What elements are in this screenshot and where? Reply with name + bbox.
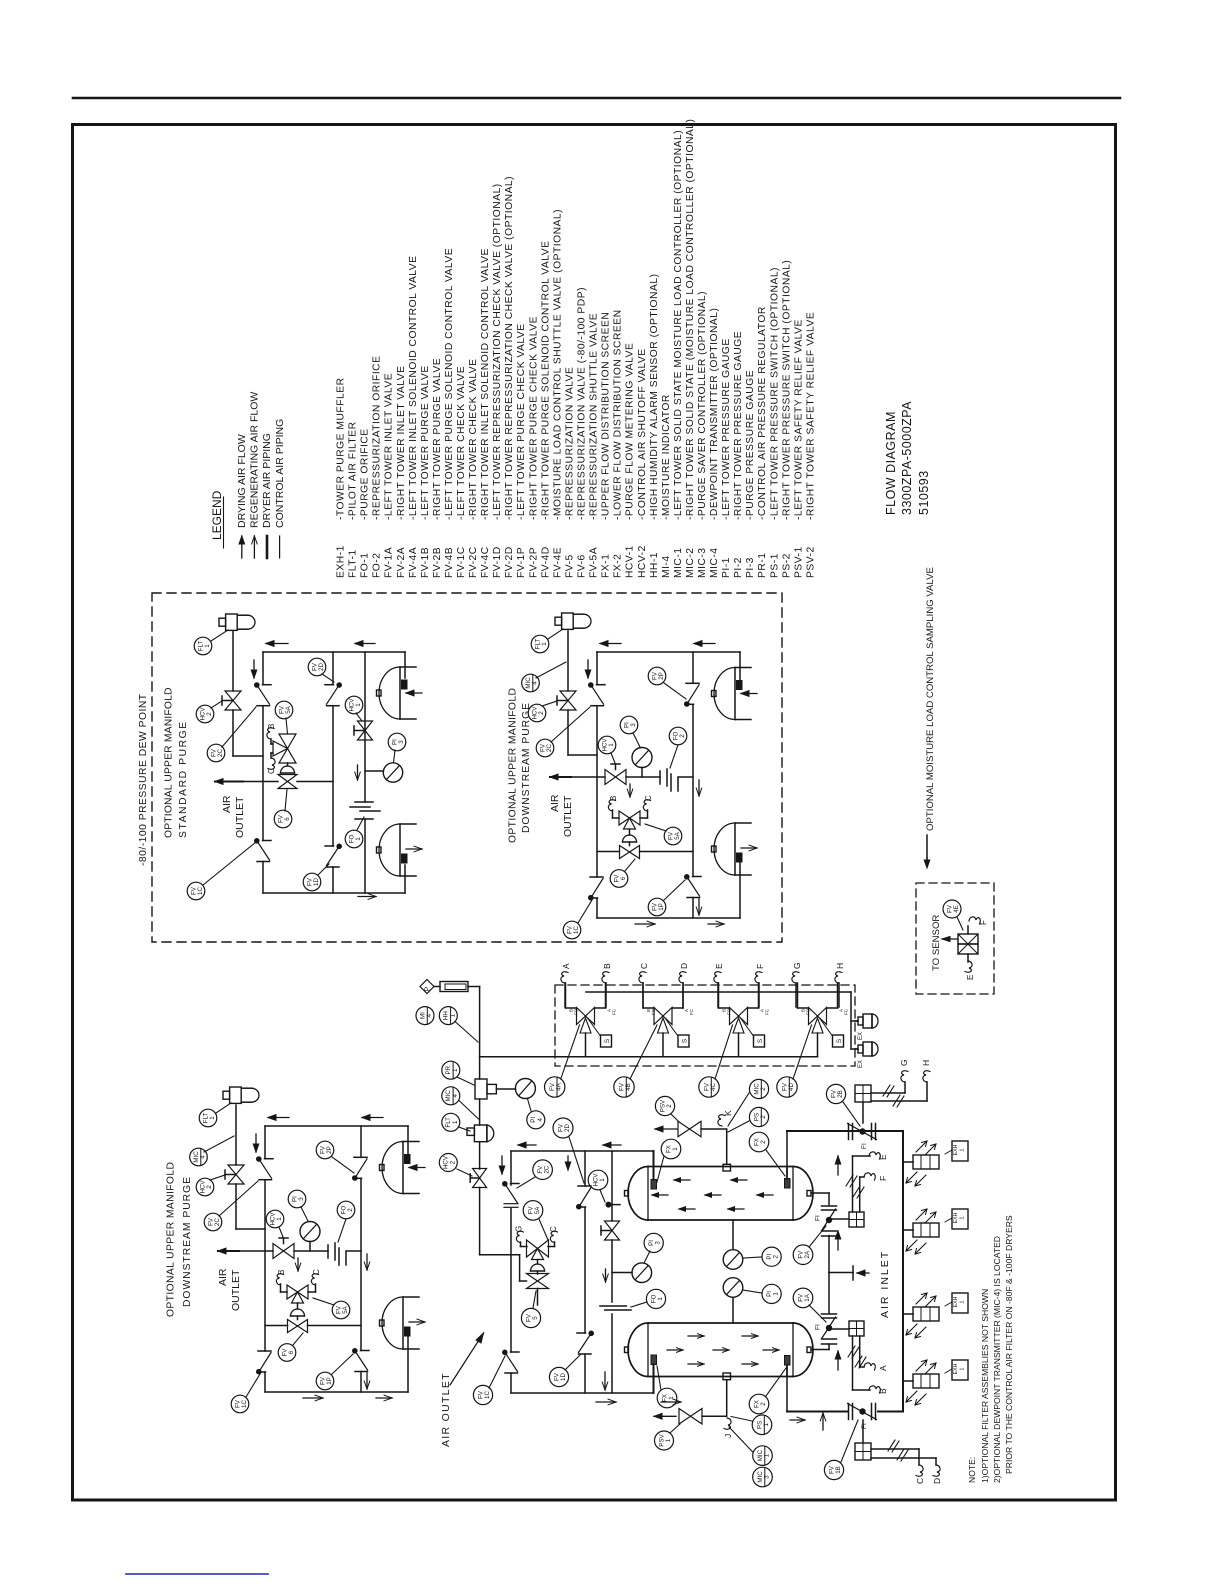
svg-text:-80/-100 PRESSURE DEW POINT: -80/-100 PRESSURE DEW POINT	[138, 693, 149, 866]
svg-text:-RIGHT TOWER INLET SOLENOID CO: -RIGHT TOWER INLET SOLENOID CONTROL VALV…	[480, 248, 491, 520]
svg-text:-CONTROL AIR PRESSURE REGULATO: -CONTROL AIR PRESSURE REGULATOR	[757, 306, 768, 520]
svg-text:1: 1	[452, 1120, 459, 1124]
svg-text:-REPRESSURIZATION SHUTTLE VALV: -REPRESSURIZATION SHUTTLE VALVE	[589, 313, 600, 520]
svg-text:2)OPTIONAL DEWPOINT TRANSMITTE: 2)OPTIONAL DEWPOINT TRANSMITTER (MIC-4) …	[992, 1236, 1002, 1483]
svg-text:E: E	[714, 963, 724, 969]
svg-text:6: 6	[620, 876, 627, 880]
svg-text:1P: 1P	[326, 1377, 333, 1385]
svg-text:FV-6: FV-6	[577, 554, 588, 578]
svg-text:1: 1	[668, 1396, 675, 1400]
svg-text:PI-2: PI-2	[733, 557, 744, 578]
svg-text:2: 2	[773, 1254, 780, 1258]
svg-text:EXH: EXH	[953, 1144, 959, 1155]
svg-text:FC: FC	[689, 1008, 694, 1015]
svg-text:1: 1	[665, 1438, 672, 1442]
svg-text:FI: FI	[861, 1143, 868, 1149]
svg-text:1: 1	[960, 1216, 966, 1219]
svg-text:FO: FO	[574, 1008, 579, 1015]
svg-text:STANDARD PURGE: STANDARD PURGE	[178, 720, 189, 838]
svg-text:2: 2	[760, 1402, 767, 1406]
svg-text:-RIGHT TOWER PURGE CHECK VALVE: -RIGHT TOWER PURGE CHECK VALVE	[528, 316, 539, 520]
svg-text:FV-4D: FV-4D	[540, 546, 551, 578]
svg-text:1: 1	[204, 644, 211, 648]
svg-text:FV-2A: FV-2A	[396, 547, 407, 578]
svg-text:1C: 1C	[241, 1400, 248, 1408]
svg-text:-LEFT TOWER REPRESSURIZATION C: -LEFT TOWER REPRESSURIZATION CHECK VALVE…	[492, 183, 503, 520]
svg-text:PS-1: PS-1	[769, 553, 780, 578]
svg-text:FX-1: FX-1	[601, 554, 612, 578]
svg-text:S: S	[757, 1038, 764, 1043]
svg-text:S: S	[836, 1038, 843, 1043]
svg-text:B: B	[878, 1388, 888, 1394]
svg-text:1: 1	[764, 1453, 771, 1457]
svg-text:FO-1: FO-1	[360, 553, 371, 578]
svg-text:-LEFT TOWER INLET VALVE: -LEFT TOWER INLET VALVE	[384, 373, 395, 520]
svg-text:-LOWER FLOW DISTRIBUTION SCREE: -LOWER FLOW DISTRIBUTION SCREEN	[613, 309, 624, 520]
svg-text:1)OPTIONAL FILTER ASSEMBLIES N: 1)OPTIONAL FILTER ASSEMBLIES NOT SHOWN	[980, 1289, 990, 1483]
svg-text:4B: 4B	[625, 1083, 632, 1091]
svg-text:2P: 2P	[658, 672, 665, 680]
svg-text:FV-1P: FV-1P	[516, 547, 527, 578]
svg-text:5A: 5A	[342, 1305, 349, 1313]
svg-text:1C: 1C	[197, 887, 204, 895]
svg-text:C: C	[915, 1478, 925, 1484]
svg-text:2: 2	[666, 1104, 673, 1108]
svg-text:-REPRESSURIZATION ORIFICE: -REPRESSURIZATION ORIFICE	[372, 356, 383, 520]
svg-text:HCV-1: HCV-1	[625, 545, 636, 578]
svg-text:EXH: EXH	[953, 1212, 959, 1223]
svg-text:-REPRESSURIZATION VALVE: -REPRESSURIZATION VALVE	[565, 367, 576, 520]
svg-text:-PURGE SAVER CONTROLLER (OPTI: -PURGE SAVER CONTROLLER (OPTIONAL)	[697, 291, 708, 520]
svg-text:-RIGHT TOWER PRESSURE SWITCH (: -RIGHT TOWER PRESSURE SWITCH (OPTIONAL)	[781, 260, 792, 520]
svg-text:2: 2	[760, 1140, 767, 1144]
svg-text:2P: 2P	[326, 1146, 333, 1154]
svg-text:-RIGHT TOWER PURGE SOLENOID CO: -RIGHT TOWER PURGE SOLENOID CONTROL VALV…	[540, 241, 551, 521]
svg-text:4A: 4A	[556, 1082, 563, 1090]
svg-text:4: 4	[537, 1118, 544, 1122]
svg-text:4E: 4E	[953, 905, 960, 913]
svg-text:1A: 1A	[804, 1293, 811, 1301]
svg-text:D: D	[932, 1478, 942, 1484]
svg-text:H: H	[921, 1060, 931, 1066]
svg-text:1: 1	[452, 1068, 459, 1072]
svg-text:FI: FI	[815, 1324, 822, 1330]
svg-text:-PURGE PRESSURE GAUGE: -PURGE PRESSURE GAUGE	[745, 370, 756, 520]
svg-text:FO: FO	[727, 1008, 732, 1015]
svg-text:-LEFT TOWER PURGE SOLENOID CON: -LEFT TOWER PURGE SOLENOID CONTROL VALVE	[444, 248, 455, 520]
svg-text:FLT-1: FLT-1	[348, 549, 359, 578]
svg-text:1: 1	[599, 1178, 606, 1182]
svg-text:-RIGHT TOWER INLET VALVE: -RIGHT TOWER INLET VALVE	[396, 366, 407, 520]
svg-text:5A: 5A	[285, 705, 292, 713]
svg-text:EX: EX	[858, 1032, 864, 1040]
svg-text:J: J	[723, 1434, 733, 1438]
svg-text:EX: EX	[858, 1060, 864, 1068]
svg-text:G: G	[792, 962, 802, 969]
svg-text:E: E	[966, 975, 975, 980]
svg-text:AIR: AIR	[549, 794, 561, 812]
svg-text:1: 1	[355, 837, 362, 841]
svg-text:-LEFT TOWER PURGE CHECK VALVE: -LEFT TOWER PURGE CHECK VALVE	[516, 323, 527, 520]
svg-text:FV-5: FV-5	[565, 554, 576, 578]
svg-text:F: F	[878, 1176, 888, 1181]
svg-text:2: 2	[679, 734, 686, 738]
svg-text:FC: FC	[765, 1008, 770, 1015]
svg-text:OPTIONAL MOISTURE LOAD CONTROL: OPTIONAL MOISTURE LOAD CONTROL SAMPLING …	[925, 567, 936, 831]
svg-text:-LEFT TOWER PURGE VALVE: -LEFT TOWER PURGE VALVE	[420, 365, 431, 520]
svg-text:MIC-2: MIC-2	[685, 547, 696, 578]
svg-text:3: 3	[298, 1197, 305, 1201]
svg-text:1: 1	[960, 1367, 966, 1370]
svg-text:FV-4A: FV-4A	[408, 547, 419, 578]
svg-text:5A: 5A	[674, 831, 681, 839]
svg-text:3: 3	[764, 1475, 771, 1479]
svg-text:FV-5A: FV-5A	[589, 547, 600, 578]
svg-text:EXH-1: EXH-1	[336, 545, 347, 578]
svg-text:-REPRESSURIZATION VALVE (-80/-: -REPRESSURIZATION VALVE (-80/-100 PDP)	[577, 287, 588, 520]
svg-text:-HIGH HUMIDITY ALARM SENSOR (O: -HIGH HUMIDITY ALARM SENSOR (OPTIONAL)	[649, 273, 660, 520]
svg-text:1: 1	[276, 1217, 283, 1221]
svg-text:OPTIONAL UPPER MANIFOLD: OPTIONAL UPPER MANIFOLD	[508, 688, 519, 843]
svg-text:2: 2	[760, 1115, 767, 1119]
svg-text:OUTLET: OUTLET	[230, 1269, 242, 1311]
svg-text:B: B	[609, 796, 618, 801]
svg-text:DOWNSTREAM PURGE: DOWNSTREAM PURGE	[521, 702, 532, 833]
svg-text:1: 1	[541, 642, 548, 646]
svg-text:-LEFT TOWER INLET SOLENOID CON: -LEFT TOWER INLET SOLENOID CONTROL VALVE	[408, 255, 419, 520]
svg-text:S: S	[682, 1038, 689, 1043]
svg-text:1C: 1C	[573, 926, 580, 934]
svg-text:4: 4	[532, 681, 539, 685]
svg-text:MIC-4: MIC-4	[709, 547, 720, 578]
svg-text:FV-2C: FV-2C	[468, 546, 479, 578]
svg-text:TO SENSOR: TO SENSOR	[931, 915, 942, 971]
svg-text:-RIGHT TOWER SOLID STATE (MOIS: -RIGHT TOWER SOLID STATE (MOISTURE LOAD …	[685, 119, 696, 520]
svg-text:3: 3	[398, 740, 405, 744]
svg-text:MIC-3: MIC-3	[697, 547, 708, 578]
svg-text:1P: 1P	[658, 903, 665, 911]
svg-text:1: 1	[773, 1292, 780, 1296]
svg-text:-LEFT TOWER CHECK VALVE: -LEFT TOWER CHECK VALVE	[456, 366, 467, 520]
svg-text:A: A	[878, 1365, 888, 1371]
svg-text:-MOISTURE LOAD CONTROL SHUTTLE: -MOISTURE LOAD CONTROL SHUTTLE VALVE (OP…	[552, 209, 563, 520]
svg-text:5: 5	[532, 1316, 539, 1320]
svg-text:FV-1C: FV-1C	[456, 546, 467, 578]
svg-text:4D: 4D	[788, 1083, 795, 1091]
svg-text:1D: 1D	[313, 878, 320, 886]
svg-text:AIR: AIR	[217, 1268, 229, 1286]
svg-text:-LEFT TOWER PRESSURE GAUGE: -LEFT TOWER PRESSURE GAUGE	[721, 338, 732, 520]
svg-text:2: 2	[449, 1160, 456, 1164]
svg-text:-RIGHT TOWER REPRESSURIZATION: -RIGHT TOWER REPRESSURIZATION CHECK VALV…	[504, 176, 515, 520]
svg-text:FV-2P: FV-2P	[528, 547, 539, 578]
svg-text:C: C	[549, 1226, 558, 1232]
svg-text:1: 1	[449, 1013, 456, 1017]
svg-text:1: 1	[960, 1148, 966, 1151]
svg-text:B: B	[602, 963, 612, 969]
svg-text:C: C	[312, 1269, 321, 1275]
svg-text:1C: 1C	[484, 1391, 491, 1399]
svg-text:FV-4C: FV-4C	[480, 546, 491, 578]
svg-text:FV-4E: FV-4E	[552, 547, 563, 578]
svg-text:DRYING AIR FLOW: DRYING AIR FLOW	[236, 434, 248, 528]
svg-text:AIR: AIR	[221, 795, 233, 813]
svg-text:K: K	[723, 1110, 733, 1116]
svg-text:4: 4	[200, 1155, 207, 1159]
svg-text:E: E	[878, 1154, 888, 1160]
svg-text:2: 2	[538, 711, 545, 715]
svg-text:2D: 2D	[318, 663, 325, 671]
svg-text:F: F	[755, 964, 765, 969]
svg-text:PSV-1: PSV-1	[793, 546, 804, 578]
svg-text:OPTIONAL UPPER MANIFOLD: OPTIONAL UPPER MANIFOLD	[166, 1162, 177, 1317]
svg-text:-DEWPOINT TRANSMITTER (OPTIONA: -DEWPOINT TRANSMITTER (OPTIONAL)	[709, 308, 720, 520]
svg-text:2C: 2C	[544, 1165, 551, 1173]
svg-text:4: 4	[452, 1094, 459, 1098]
svg-text:FV-1B: FV-1B	[420, 547, 431, 578]
svg-text:REGENERATING AIR FLOW: REGENERATING AIR FLOW	[249, 392, 261, 528]
svg-text:FI: FI	[861, 1423, 868, 1429]
svg-text:-RIGHT TOWER PURGE VALVE: -RIGHT TOWER PURGE VALVE	[432, 358, 443, 520]
svg-text:1: 1	[209, 1116, 216, 1120]
svg-text:FO-2: FO-2	[372, 553, 383, 578]
svg-text:-LEFT TOWER PRESSURE SWITCH (O: -LEFT TOWER PRESSURE SWITCH (OPTIONAL)	[769, 267, 780, 520]
svg-text:F: F	[979, 920, 988, 925]
svg-text:AIR OUTLET: AIR OUTLET	[440, 1372, 452, 1447]
svg-text:2A: 2A	[804, 1250, 811, 1258]
svg-text:-PURGE ORIFICE: -PURGE ORIFICE	[360, 428, 371, 520]
svg-text:HH-1: HH-1	[649, 552, 660, 578]
svg-text:2C: 2C	[546, 744, 553, 752]
svg-text:2: 2	[347, 1208, 354, 1212]
svg-text:FV-2B: FV-2B	[432, 547, 443, 578]
svg-text:FV-2D: FV-2D	[504, 546, 515, 578]
svg-text:-RIGHT TOWER CHECK VALVE: -RIGHT TOWER CHECK VALVE	[468, 358, 479, 520]
svg-text:DRYER AIR PIPING: DRYER AIR PIPING	[261, 433, 273, 528]
svg-text:4: 4	[426, 1013, 433, 1017]
svg-text:PS-2: PS-2	[781, 553, 792, 578]
svg-text:-LEFT TOWER SAFETY RELIEF VALV: -LEFT TOWER SAFETY RELIEF VALVE	[793, 319, 804, 520]
svg-text:PI-1: PI-1	[721, 557, 732, 578]
svg-text:-MOISTURE INDICATOR: -MOISTURE INDICATOR	[661, 394, 672, 520]
svg-text:-RIGHT TOWER SAFETY RELIEF VAL: -RIGHT TOWER SAFETY RELIEF VALVE	[806, 312, 817, 520]
svg-text:DOWNSTREAM PURGE: DOWNSTREAM PURGE	[182, 1176, 193, 1307]
svg-text:2: 2	[206, 712, 213, 716]
svg-text:MI-4: MI-4	[661, 555, 672, 578]
svg-text:OUTLET: OUTLET	[234, 796, 246, 838]
svg-text:P: P	[425, 986, 432, 991]
svg-text:2: 2	[760, 1087, 767, 1091]
svg-text:MIC-1: MIC-1	[673, 547, 684, 578]
svg-text:FO: FO	[651, 1008, 656, 1015]
svg-text:-RIGHT TOWER PRESSURE GAUGE: -RIGHT TOWER PRESSURE GAUGE	[733, 331, 744, 520]
svg-text:OUTLET: OUTLET	[562, 795, 574, 837]
svg-text:-CONTROL AIR SHUTOFF VALVE: -CONTROL AIR SHUTOFF VALVE	[637, 348, 648, 520]
svg-text:-UPPER FLOW DISTRIBUTION SCREE: -UPPER FLOW DISTRIBUTION SCREEN	[601, 312, 612, 520]
svg-text:NOTE:: NOTE:	[967, 1457, 977, 1483]
svg-text:S: S	[604, 1038, 611, 1043]
svg-text:PR-1: PR-1	[757, 553, 768, 578]
svg-text:1: 1	[960, 1300, 966, 1303]
svg-text:C: C	[267, 768, 276, 774]
svg-text:3: 3	[630, 723, 637, 727]
svg-text:PSV-2: PSV-2	[806, 546, 817, 578]
svg-text:FV-4B: FV-4B	[444, 547, 455, 578]
svg-text:2C: 2C	[214, 1218, 221, 1226]
svg-text:1: 1	[657, 1297, 664, 1301]
svg-text:-PILOT AIR FILTER: -PILOT AIR FILTER	[348, 421, 359, 520]
svg-text:3: 3	[655, 1241, 662, 1245]
svg-text:G: G	[899, 1059, 909, 1066]
svg-text:PRIOR TO THE CONTROL AIR FILTE: PRIOR TO THE CONTROL AIR FILTER ON -80F …	[1004, 1215, 1014, 1474]
svg-text:5A: 5A	[534, 1206, 541, 1214]
svg-text:AIR INLET: AIR INLET	[879, 1250, 891, 1318]
svg-text:H: H	[835, 963, 845, 969]
svg-text:FO: FO	[806, 1008, 811, 1015]
svg-text:6: 6	[288, 1350, 295, 1354]
svg-text:A: A	[561, 963, 571, 969]
svg-text:1: 1	[672, 1147, 679, 1151]
svg-text:EXH: EXH	[953, 1296, 959, 1307]
svg-text:G: G	[515, 1226, 524, 1232]
svg-text:510593: 510593	[917, 470, 931, 515]
svg-text:4C: 4C	[710, 1083, 717, 1091]
svg-text:1D: 1D	[560, 1373, 567, 1381]
svg-text:-TOWER PURGE MUFFLER: -TOWER PURGE MUFFLER	[336, 377, 347, 520]
svg-text:6: 6	[284, 817, 291, 821]
svg-text:2C: 2C	[217, 749, 224, 757]
svg-text:B: B	[267, 724, 276, 729]
svg-text:C: C	[644, 795, 653, 801]
svg-text:1: 1	[355, 703, 362, 707]
svg-text:FV-1D: FV-1D	[492, 546, 503, 578]
svg-text:2: 2	[206, 1185, 213, 1189]
svg-text:PI-3: PI-3	[745, 557, 756, 578]
svg-text:FC: FC	[612, 1008, 617, 1015]
svg-text:3300ZPA-5000ZPA: 3300ZPA-5000ZPA	[900, 401, 914, 515]
svg-text:D: D	[679, 963, 689, 969]
svg-text:-LEFT TOWER SOLID STATE MOISTU: -LEFT TOWER SOLID STATE MOISTURE LOAD CO…	[673, 130, 684, 520]
svg-text:1: 1	[763, 1423, 770, 1427]
svg-text:FC: FC	[844, 1008, 849, 1015]
svg-text:CONTROL AIR PIPING: CONTROL AIR PIPING	[274, 419, 286, 528]
svg-text:HCV-2: HCV-2	[637, 545, 648, 578]
svg-text:1: 1	[608, 743, 615, 747]
svg-text:LEGEND: LEGEND	[210, 490, 224, 540]
svg-text:1B: 1B	[835, 1466, 842, 1474]
svg-text:FI: FI	[815, 1215, 822, 1221]
svg-text:EXH: EXH	[953, 1363, 959, 1374]
svg-text:FX-2: FX-2	[613, 554, 624, 578]
svg-text:FV-1A: FV-1A	[384, 547, 395, 578]
svg-text:-PURGE FLOW METERING VALVE: -PURGE FLOW METERING VALVE	[625, 343, 636, 520]
svg-text:OPTIONAL UPPER MANIFOLD: OPTIONAL UPPER MANIFOLD	[164, 687, 175, 838]
svg-text:2B: 2B	[837, 1090, 844, 1098]
svg-text:C: C	[639, 963, 649, 969]
svg-text:FLOW DIAGRAM: FLOW DIAGRAM	[884, 411, 898, 515]
svg-text:B: B	[277, 1270, 286, 1275]
svg-text:2D: 2D	[564, 1124, 571, 1132]
